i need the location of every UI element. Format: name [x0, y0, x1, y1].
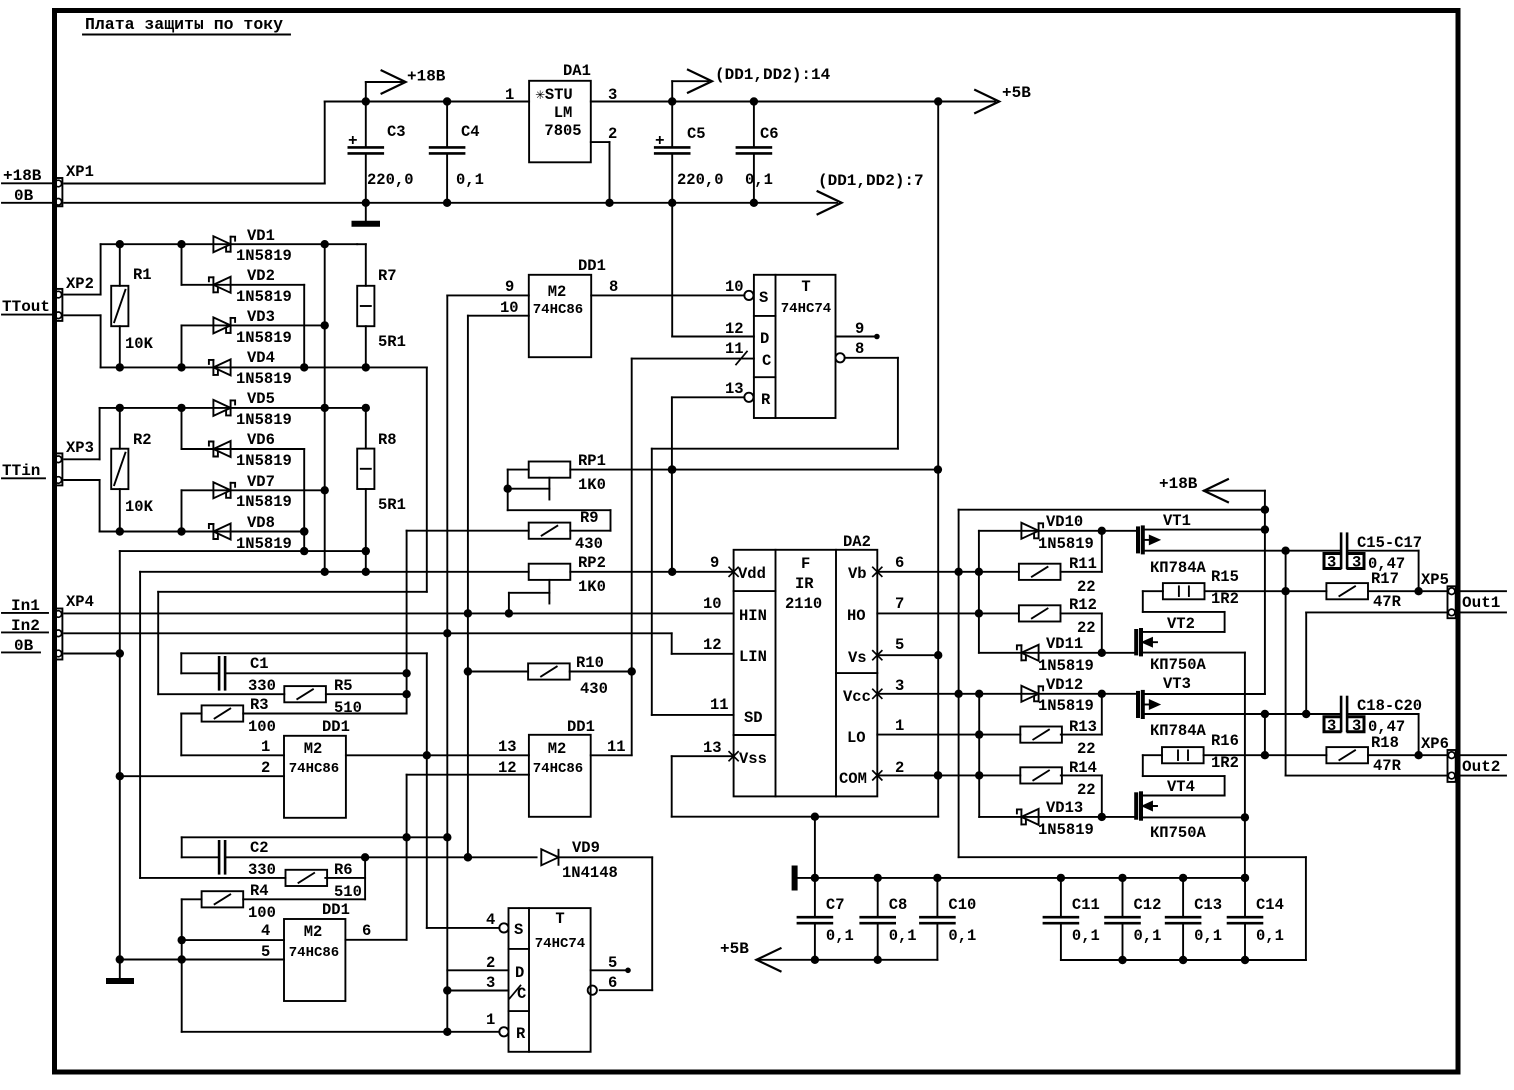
svg-text:M2: M2 [548, 740, 567, 758]
svg-text:1N5819: 1N5819 [236, 411, 292, 429]
svg-text:VD10: VD10 [1046, 513, 1083, 531]
svg-text:R16: R16 [1211, 732, 1239, 750]
svg-text:S: S [514, 921, 523, 939]
svg-text:1N5819: 1N5819 [236, 288, 292, 306]
svg-text:7805: 7805 [544, 122, 581, 140]
svg-text:1N5819: 1N5819 [236, 535, 292, 553]
svg-text:C6: C6 [760, 125, 779, 143]
svg-text:100: 100 [248, 718, 276, 736]
svg-text:Vb: Vb [848, 565, 867, 583]
svg-text:74HC86: 74HC86 [289, 761, 339, 777]
svg-text:22: 22 [1077, 781, 1096, 799]
svg-text:0,1: 0,1 [1256, 927, 1284, 945]
svg-text:IR: IR [795, 575, 814, 593]
svg-text:10: 10 [725, 278, 744, 296]
svg-text:RP1: RP1 [578, 452, 606, 470]
svg-text:C14: C14 [1256, 896, 1284, 914]
svg-text:11: 11 [725, 340, 744, 358]
svg-text:510: 510 [334, 699, 362, 717]
svg-text:3: 3 [1352, 554, 1361, 572]
svg-text:2: 2 [486, 954, 495, 972]
svg-text:2: 2 [261, 759, 270, 777]
svg-text:8: 8 [609, 278, 618, 296]
svg-text:0B: 0B [14, 187, 34, 205]
svg-text:0B: 0B [14, 637, 34, 655]
svg-text:C10: C10 [948, 896, 976, 914]
svg-text:R2: R2 [133, 431, 152, 449]
svg-text:DA2: DA2 [843, 533, 871, 551]
svg-text:VD1: VD1 [247, 227, 275, 245]
svg-text:F: F [801, 555, 810, 573]
svg-text:T: T [555, 910, 564, 928]
svg-text:VD12: VD12 [1046, 676, 1083, 694]
svg-text:DD1: DD1 [322, 901, 350, 919]
svg-text:22: 22 [1077, 578, 1096, 596]
svg-text:+18B: +18B [1159, 475, 1198, 493]
svg-text:1: 1 [505, 86, 514, 104]
svg-text:3: 3 [895, 677, 904, 695]
svg-text:1N4148: 1N4148 [562, 864, 618, 882]
svg-text:0,1: 0,1 [456, 171, 484, 189]
svg-text:R3: R3 [250, 696, 269, 714]
svg-text:In2: In2 [11, 617, 40, 635]
svg-text:C13: C13 [1194, 896, 1222, 914]
svg-text:C18-C20: C18-C20 [1357, 697, 1422, 715]
svg-text:S: S [759, 289, 768, 307]
svg-text:VD8: VD8 [247, 514, 275, 532]
svg-text:1N5819: 1N5819 [236, 329, 292, 347]
svg-text:XP3: XP3 [66, 439, 94, 457]
svg-text:1: 1 [486, 1011, 495, 1029]
svg-text:1K0: 1K0 [578, 476, 606, 494]
svg-text:+18B: +18B [3, 167, 42, 185]
svg-text:(DD1,DD2):7: (DD1,DD2):7 [818, 172, 924, 190]
svg-text:C7: C7 [826, 896, 845, 914]
svg-text:1: 1 [261, 738, 270, 756]
svg-text:1K0: 1K0 [578, 578, 606, 596]
svg-text:R18: R18 [1371, 734, 1399, 752]
svg-text:C2: C2 [250, 839, 269, 857]
svg-text:47R: 47R [1373, 757, 1402, 775]
svg-text:XP1: XP1 [66, 163, 94, 181]
svg-text:R14: R14 [1069, 759, 1097, 777]
svg-text:Плата защиты по току: Плата защиты по току [85, 15, 283, 34]
svg-text:3: 3 [1327, 717, 1336, 735]
svg-text:D: D [515, 964, 524, 982]
svg-text:4: 4 [261, 922, 270, 940]
svg-text:+18B: +18B [407, 68, 446, 86]
svg-text:5R1: 5R1 [378, 496, 406, 514]
svg-text:VD4: VD4 [247, 349, 275, 367]
svg-text:13: 13 [498, 738, 517, 756]
svg-text:R7: R7 [378, 267, 397, 285]
svg-text:XP6: XP6 [1421, 735, 1449, 753]
svg-text:2: 2 [608, 125, 617, 143]
svg-text:VD3: VD3 [247, 308, 275, 326]
svg-text:5: 5 [608, 954, 617, 972]
svg-text:VD13: VD13 [1046, 799, 1083, 817]
svg-text:2: 2 [895, 759, 904, 777]
svg-text:(DD1,DD2):14: (DD1,DD2):14 [715, 66, 831, 84]
svg-text:Vs: Vs [848, 649, 867, 667]
svg-text:TTout: TTout [2, 298, 50, 316]
svg-text:R13: R13 [1069, 718, 1097, 736]
svg-text:6: 6 [362, 922, 371, 940]
svg-text:+5B: +5B [1002, 84, 1031, 102]
svg-text:VD9: VD9 [572, 839, 600, 857]
svg-text:+5B: +5B [720, 940, 749, 958]
svg-text:C3: C3 [387, 123, 406, 141]
svg-text:C8: C8 [889, 896, 908, 914]
svg-text:7: 7 [895, 595, 904, 613]
svg-text:6: 6 [895, 554, 904, 572]
svg-text:DD1: DD1 [322, 718, 350, 736]
svg-text:XP4: XP4 [66, 593, 94, 611]
svg-text:VD5: VD5 [247, 390, 275, 408]
svg-text:0,1: 0,1 [889, 927, 917, 945]
svg-text:0,47: 0,47 [1368, 718, 1405, 736]
svg-text:6: 6 [608, 974, 617, 992]
svg-text:1N5819: 1N5819 [1038, 697, 1094, 715]
svg-text:74HC74: 74HC74 [535, 936, 585, 952]
svg-text:220,0: 220,0 [677, 171, 724, 189]
svg-text:1N5819: 1N5819 [1038, 535, 1094, 553]
svg-text:11: 11 [710, 696, 729, 714]
svg-text:5: 5 [895, 636, 904, 654]
svg-text:74HC86: 74HC86 [289, 945, 339, 961]
svg-text:1N5819: 1N5819 [236, 493, 292, 511]
svg-text:0,1: 0,1 [745, 171, 773, 189]
svg-text:10: 10 [500, 299, 519, 317]
svg-text:1: 1 [895, 717, 904, 735]
svg-text:RP2: RP2 [578, 554, 606, 572]
svg-text:DA1: DA1 [563, 62, 591, 80]
svg-text:9: 9 [505, 278, 514, 296]
svg-text:C4: C4 [461, 123, 480, 141]
svg-text:R6: R6 [334, 861, 353, 879]
svg-text:10: 10 [703, 595, 722, 613]
svg-text:5R1: 5R1 [378, 333, 406, 351]
svg-text:100: 100 [248, 904, 276, 922]
svg-text:R15: R15 [1211, 568, 1239, 586]
svg-text:C5: C5 [687, 125, 706, 143]
svg-text:5: 5 [261, 943, 270, 961]
svg-text:КП750А: КП750А [1150, 824, 1207, 842]
svg-text:Out2: Out2 [1462, 758, 1500, 776]
svg-text:In1: In1 [11, 597, 40, 615]
svg-text:КП784А: КП784А [1150, 722, 1207, 740]
svg-text:430: 430 [575, 535, 603, 553]
svg-text:C1: C1 [250, 655, 269, 673]
svg-text:3: 3 [486, 974, 495, 992]
svg-text:DD1: DD1 [567, 718, 595, 736]
svg-text:Vcc: Vcc [843, 688, 871, 706]
svg-text:VD2: VD2 [247, 267, 275, 285]
svg-text:C: C [762, 352, 771, 370]
svg-text:✳STU: ✳STU [536, 86, 573, 104]
svg-text:КП784А: КП784А [1150, 559, 1207, 577]
svg-text:9: 9 [710, 554, 719, 572]
svg-text:LO: LO [847, 729, 866, 747]
svg-text:VT4: VT4 [1167, 778, 1195, 796]
svg-text:R9: R9 [580, 509, 599, 527]
svg-text:0,1: 0,1 [826, 927, 854, 945]
svg-text:3: 3 [608, 86, 617, 104]
svg-text:R: R [761, 391, 771, 409]
svg-text:47R: 47R [1373, 593, 1402, 611]
svg-text:R12: R12 [1069, 596, 1097, 614]
svg-text:74HC86: 74HC86 [533, 761, 583, 777]
svg-text:C: C [517, 985, 526, 1003]
svg-text:330: 330 [248, 677, 276, 695]
svg-text:M2: M2 [548, 283, 567, 301]
svg-text:0,1: 0,1 [1072, 927, 1100, 945]
svg-text:11: 11 [607, 738, 626, 756]
svg-text:C11: C11 [1072, 896, 1100, 914]
svg-text:22: 22 [1077, 740, 1096, 758]
svg-text:Vss: Vss [739, 750, 767, 768]
svg-text:R: R [516, 1025, 526, 1043]
svg-text:8: 8 [855, 340, 864, 358]
svg-text:13: 13 [725, 380, 744, 398]
svg-text:R1: R1 [133, 266, 152, 284]
svg-text:1N5819: 1N5819 [236, 452, 292, 470]
svg-text:1N5819: 1N5819 [1038, 657, 1094, 675]
svg-text:SD: SD [744, 709, 763, 727]
svg-text:КП750А: КП750А [1150, 656, 1207, 674]
svg-text:T: T [801, 278, 810, 296]
svg-text:74HC86: 74HC86 [533, 302, 583, 318]
svg-text:COM: COM [839, 770, 867, 788]
svg-text:4: 4 [486, 911, 495, 929]
svg-text:0,47: 0,47 [1368, 555, 1405, 573]
svg-text:R10: R10 [576, 654, 604, 672]
svg-text:74HC74: 74HC74 [781, 301, 831, 317]
svg-text:C12: C12 [1134, 896, 1162, 914]
svg-text:12: 12 [498, 759, 517, 777]
svg-text:LIN: LIN [739, 648, 767, 666]
svg-text:XP2: XP2 [66, 275, 94, 293]
svg-text:0,1: 0,1 [1134, 927, 1162, 945]
svg-text:R5: R5 [334, 677, 353, 695]
svg-text:VT2: VT2 [1167, 615, 1195, 633]
svg-text:VD7: VD7 [247, 473, 275, 491]
svg-text:1R2: 1R2 [1211, 754, 1239, 772]
svg-text:HIN: HIN [739, 607, 767, 625]
svg-text:VD6: VD6 [247, 431, 275, 449]
svg-text:C15-C17: C15-C17 [1357, 534, 1422, 552]
svg-text:1N5819: 1N5819 [236, 247, 292, 265]
svg-text:1N5819: 1N5819 [1038, 821, 1094, 839]
svg-text:12: 12 [703, 636, 722, 654]
svg-text:13: 13 [703, 739, 722, 757]
svg-text:10K: 10K [125, 335, 154, 353]
svg-text:VT3: VT3 [1163, 675, 1191, 693]
svg-text:DD1: DD1 [578, 257, 606, 275]
svg-text:M2: M2 [304, 923, 323, 941]
svg-text:0,1: 0,1 [948, 927, 976, 945]
svg-text:Out1: Out1 [1462, 594, 1500, 612]
svg-text:3: 3 [1327, 554, 1336, 572]
svg-text:+: + [655, 132, 665, 150]
svg-text:2110: 2110 [785, 595, 822, 613]
svg-text:9: 9 [855, 320, 864, 338]
svg-text:LM: LM [554, 104, 573, 122]
svg-text:TTin: TTin [2, 462, 40, 480]
svg-text:1N5819: 1N5819 [236, 370, 292, 388]
svg-text:R8: R8 [378, 431, 397, 449]
svg-text:12: 12 [725, 320, 744, 338]
svg-text:220,0: 220,0 [367, 171, 414, 189]
svg-text:0,1: 0,1 [1194, 927, 1222, 945]
svg-text:+: + [348, 132, 358, 150]
svg-text:3: 3 [1352, 717, 1361, 735]
svg-text:1R2: 1R2 [1211, 590, 1239, 608]
svg-text:Vdd: Vdd [738, 565, 766, 583]
svg-text:R11: R11 [1069, 555, 1097, 573]
svg-text:VD11: VD11 [1046, 635, 1083, 653]
svg-text:R4: R4 [250, 882, 269, 900]
svg-text:430: 430 [580, 680, 608, 698]
svg-text:HO: HO [847, 607, 866, 625]
svg-text:10K: 10K [125, 498, 154, 516]
svg-text:330: 330 [248, 861, 276, 879]
svg-text:D: D [760, 330, 769, 348]
svg-text:M2: M2 [304, 740, 323, 758]
svg-text:XP5: XP5 [1421, 571, 1449, 589]
svg-text:510: 510 [334, 883, 362, 901]
svg-text:VT1: VT1 [1163, 512, 1191, 530]
